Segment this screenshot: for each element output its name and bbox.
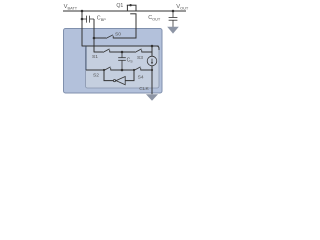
wire current source to row2 and GND pin (151, 66, 153, 94)
transistor Q1 (pass PMOS over rail) (127, 5, 137, 14)
wire down to current source (151, 46, 153, 57)
wire VBATT rail (63, 10, 186, 12)
wire C_BP/S0 node down to S1 row (93, 19, 95, 52)
switch S4 (open blade) (134, 67, 141, 71)
svg-text:S0: S0 (115, 31, 121, 37)
wire VBATT along sub-block top (82, 45, 159, 47)
wire S2 row to cap node (111, 69, 134, 71)
svg-text:S2: S2 (93, 72, 99, 78)
svg-text:COUT: COUT (148, 15, 161, 22)
IC block U1 (outer shaded body) (64, 29, 163, 94)
node C_S bottom (junction dot) (121, 69, 124, 72)
ground (C_OUT) (167, 27, 179, 34)
node current-source feed (junction dot) (151, 45, 154, 48)
wire S4 row right (141, 69, 152, 71)
wire S0 row right (113, 37, 136, 39)
node inverter input / S4 pivot (junction dot) (133, 69, 135, 71)
clock inverter U2 (triangle with bubble) (116, 77, 125, 85)
node S0 row junction (dot) (93, 37, 96, 40)
switch S3 (open blade) (135, 49, 142, 53)
wire inverter output to S2 node (104, 70, 113, 81)
svg-text:VOUT: VOUT (176, 4, 189, 11)
wire Q1 gate lead (135, 14, 137, 39)
svg-text:CLK: CLK (139, 86, 149, 92)
node VBATT/C_BP branch (junction dot) (81, 10, 84, 13)
svg-text:S1: S1 (92, 54, 98, 60)
switch S0 (open blade) (106, 35, 113, 39)
wire inverter input to S4 node (125, 70, 134, 81)
wire S1 row to cap node (110, 51, 135, 53)
ground (bottom GND pin) (146, 94, 158, 101)
svg-text:VBATT: VBATT (64, 4, 78, 11)
switch S2 (open blade) (104, 67, 111, 71)
svg-text:CBP: CBP (97, 16, 107, 23)
capacitor C_OUT (169, 11, 178, 27)
switch S1 (open blade) (103, 49, 110, 53)
wire riser along sub-block left edge (85, 46, 87, 70)
sample/hold sub-block (inner shaded body) (86, 46, 160, 88)
svg-text:S4: S4 (138, 75, 144, 81)
svg-text:Q1: Q1 (116, 3, 123, 9)
wire VBATT down into block (81, 11, 83, 46)
node S4/current-source junction (dot) (151, 69, 153, 71)
node C_S top (junction dot) (121, 51, 124, 54)
svg-text:S3: S3 (137, 55, 143, 61)
node inverter output / S2 pivot (junction dot) (103, 69, 105, 71)
current source I1 (147, 56, 157, 66)
wire S0 row left (94, 37, 106, 39)
capacitor C_BP (82, 16, 94, 23)
capacitor C_S (118, 52, 126, 70)
wire corner down sub-block top-right (157, 46, 160, 50)
node C_BP tap (junction dot) (81, 18, 84, 21)
node C_OUT branch (junction dot) (172, 10, 175, 13)
wire S2 row left (86, 69, 104, 71)
wire S1 row left (94, 51, 103, 53)
wire S3 to current source column (142, 51, 152, 53)
